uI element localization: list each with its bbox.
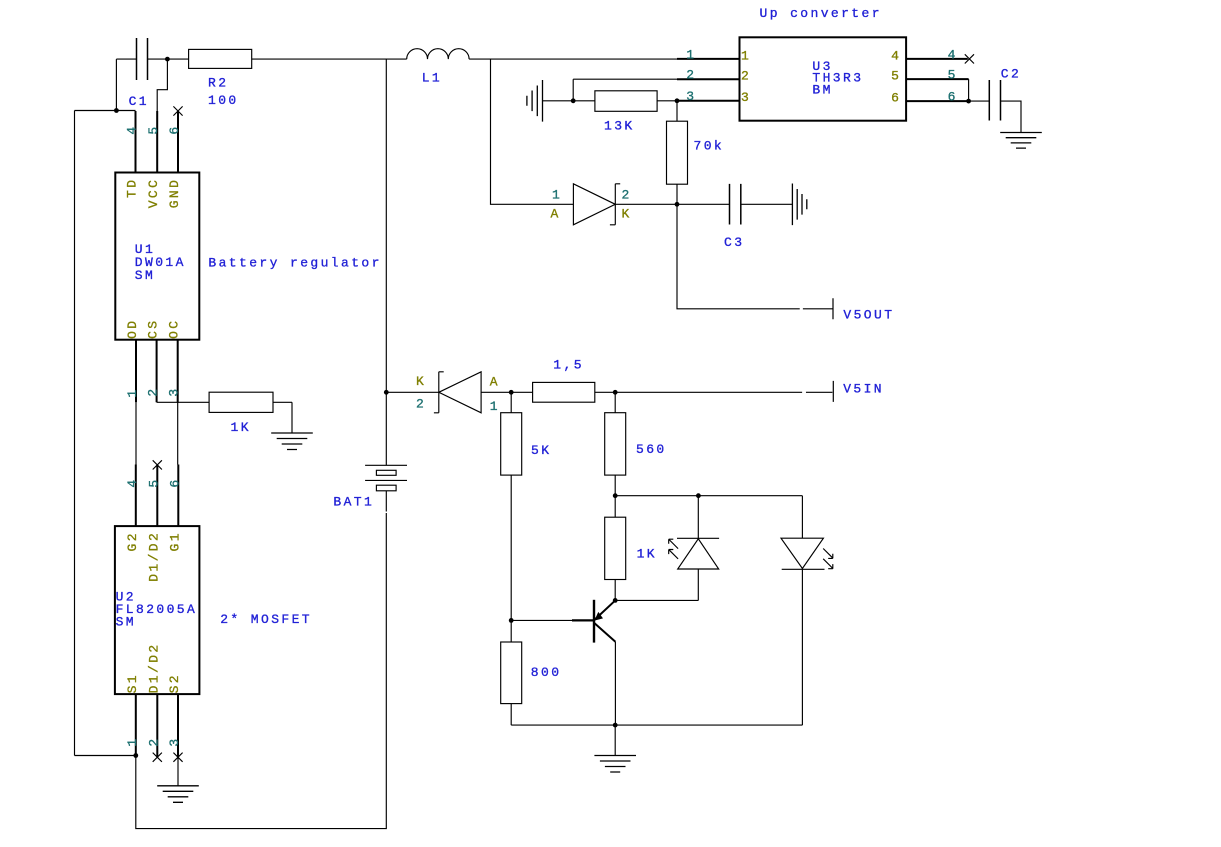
svg-text:800: 800 [531, 665, 562, 680]
svg-text:4: 4 [891, 48, 901, 63]
svg-text:13K: 13K [604, 119, 635, 134]
svg-text:5: 5 [146, 124, 161, 134]
svg-text:GND: GND [167, 178, 182, 209]
svg-text:C3: C3 [724, 235, 744, 250]
svg-text:3: 3 [686, 89, 696, 104]
svg-text:SM: SM [116, 614, 136, 629]
svg-text:D1/D2: D1/D2 [146, 642, 161, 693]
svg-text:1K: 1K [637, 547, 657, 562]
svg-text:BM: BM [812, 83, 832, 98]
svg-text:K: K [622, 207, 632, 222]
svg-text:6: 6 [167, 124, 182, 134]
svg-text:1: 1 [686, 47, 696, 62]
svg-text:V5IN: V5IN [843, 382, 884, 397]
svg-text:5: 5 [891, 69, 901, 84]
svg-text:4: 4 [125, 477, 140, 487]
svg-text:1: 1 [741, 48, 751, 63]
svg-text:G2: G2 [125, 531, 140, 551]
svg-text:5K: 5K [531, 443, 551, 458]
svg-text:SM: SM [135, 268, 155, 283]
svg-text:100: 100 [208, 93, 239, 108]
svg-text:6: 6 [948, 90, 958, 105]
svg-text:2: 2 [622, 187, 632, 202]
svg-text:VCC: VCC [146, 178, 161, 209]
svg-text:2: 2 [416, 397, 426, 412]
svg-text:3: 3 [741, 90, 751, 105]
svg-text:OD: OD [125, 318, 140, 338]
svg-text:1: 1 [125, 736, 140, 746]
svg-text:1: 1 [490, 399, 500, 414]
svg-text:OC: OC [167, 318, 182, 338]
svg-text:6: 6 [167, 477, 182, 487]
svg-text:S2: S2 [167, 673, 182, 693]
svg-text:BAT1: BAT1 [333, 495, 374, 510]
svg-text:1,5: 1,5 [553, 358, 584, 373]
svg-text:S1: S1 [125, 673, 140, 693]
svg-text:TD: TD [125, 178, 140, 198]
svg-text:CS: CS [146, 318, 161, 338]
svg-text:1: 1 [552, 187, 562, 202]
svg-text:C1: C1 [129, 94, 149, 109]
svg-text:1: 1 [125, 387, 140, 397]
svg-text:V5OUT: V5OUT [843, 308, 894, 323]
svg-text:Battery regulator: Battery regulator [208, 255, 381, 270]
svg-text:4: 4 [948, 47, 958, 62]
svg-text:Up converter: Up converter [760, 6, 882, 21]
svg-text:K: K [416, 374, 426, 389]
svg-text:70k: 70k [694, 139, 725, 154]
svg-text:1K: 1K [231, 420, 251, 435]
svg-text:R2: R2 [208, 76, 228, 91]
svg-text:G1: G1 [167, 531, 182, 551]
svg-text:2: 2 [146, 386, 161, 396]
svg-text:5: 5 [948, 68, 958, 83]
svg-text:2: 2 [686, 68, 696, 83]
svg-text:D1/D2: D1/D2 [146, 531, 161, 582]
svg-text:C2: C2 [1001, 67, 1021, 82]
svg-text:2* MOSFET: 2* MOSFET [220, 612, 312, 627]
svg-text:A: A [551, 207, 561, 222]
svg-text:L1: L1 [422, 70, 442, 85]
svg-text:2: 2 [146, 736, 161, 746]
svg-text:A: A [490, 374, 500, 389]
svg-text:4: 4 [125, 124, 140, 134]
svg-text:6: 6 [891, 91, 901, 106]
svg-text:3: 3 [167, 386, 182, 396]
svg-text:5: 5 [146, 477, 161, 487]
svg-text:560: 560 [636, 442, 667, 457]
svg-text:2: 2 [741, 69, 751, 84]
svg-text:3: 3 [167, 736, 182, 746]
